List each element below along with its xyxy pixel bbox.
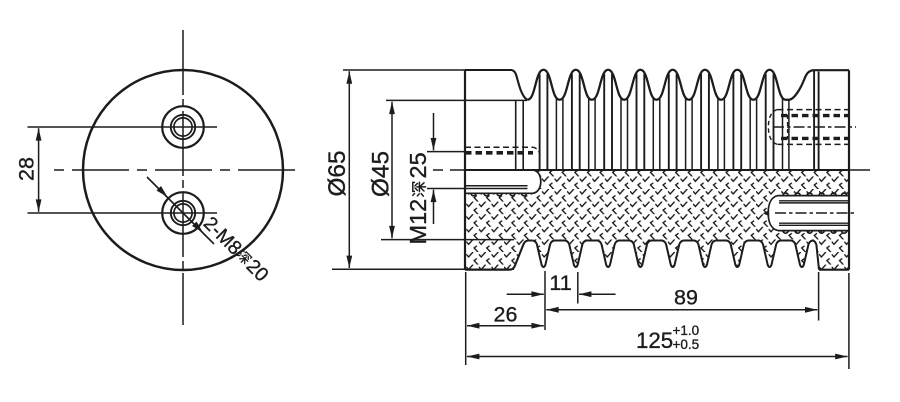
main axis centerline [433, 169, 876, 171]
svg-text:28: 28 [15, 157, 39, 181]
dim M12 extension top [427, 151, 466, 153]
dim 89 right extension [818, 272, 820, 321]
label 2-M8深20 [199, 212, 273, 286]
dim Ø45 extension top [386, 99, 527, 101]
dim Ø65 extension bottom [332, 268, 514, 270]
dim 26/11 shared extension [544, 271, 546, 330]
M12 hidden end arc [533, 147, 540, 156]
vertical centerline [182, 30, 184, 325]
M12 hidden thread (thick dashes) [465, 151, 533, 155]
svg-text:M12: M12 [405, 199, 431, 245]
hole M8 upper outer circle [162, 106, 204, 148]
svg-text:11: 11 [549, 271, 571, 295]
hole M8 lower centerline [28, 212, 218, 214]
M12 thread lines (section, below axis) [465, 186, 528, 189]
insert knurl bumps bottom [783, 231, 847, 234]
leader line 2-M8 [147, 177, 214, 244]
insert outer lines [778, 196, 849, 231]
M12 insert knurl bumps [471, 193, 527, 196]
hole M8 lower outer circle [162, 192, 204, 234]
dim 11 arrows outside [507, 293, 544, 295]
dim 89 line [546, 309, 817, 311]
drill bottom and cone [763, 210, 769, 216]
part outline top: left face [464, 70, 466, 270]
dim Ø65 extension top [343, 69, 466, 71]
dim M12 text [405, 152, 431, 244]
svg-text:89: 89 [674, 286, 698, 310]
hidden thread thick dashed lines [781, 116, 849, 139]
svg-text:Ø45: Ø45 [368, 151, 395, 197]
web to cap bottom slope [813, 241, 819, 270]
dim Ø65 line [348, 71, 350, 268]
section boundary line at axis [465, 169, 849, 171]
hidden insert end arc [768, 110, 777, 145]
dim Ø45 extension bottom [381, 239, 514, 241]
hidden insert outer dashed lines [778, 110, 850, 145]
end cap top edge [814, 69, 849, 71]
dimension 28 line [38, 128, 40, 212]
lower M8 centerline [775, 212, 856, 214]
svg-text:+1.0: +1.0 [673, 323, 700, 338]
shed flank vertical lines [540, 74, 774, 170]
horizontal centerline [54, 169, 298, 171]
dim Ø45 line [391, 102, 393, 239]
end cap left face [813, 70, 815, 170]
leader arrowheads [157, 186, 168, 197]
flange outline circle [83, 70, 283, 270]
svg-text:125: 125 [636, 328, 673, 353]
bellows profile curve [527, 70, 814, 100]
dim 26/125 left extension [465, 272, 467, 365]
valley silhouette lines [556, 99, 789, 170]
insert closed end arc [768, 196, 778, 231]
M12 insert outer line with knurl (section) [465, 192, 533, 194]
hatch section area [465, 170, 849, 270]
flange bottom edge and cone slope [465, 241, 528, 270]
hole M8 upper centerline [28, 126, 218, 128]
bottom teeth profile [533, 241, 813, 268]
first valley silhouette lines [516, 100, 524, 170]
upper M8 centerline [773, 126, 856, 128]
svg-text:25: 25 [405, 152, 431, 178]
insert knurl bumps top [783, 193, 847, 196]
dim 125 right extension [848, 273, 850, 369]
svg-text:26: 26 [494, 303, 518, 327]
hole M8 upper thread circles [171, 115, 195, 139]
hidden thread end vertical [787, 115, 789, 139]
dim M12 extension bottom [427, 188, 466, 190]
dim 125 line [467, 356, 848, 358]
flange top edge and cone slope [465, 70, 527, 100]
svg-text:+0.5: +0.5 [673, 337, 700, 352]
M12 hole section: top line and closed end arc [533, 170, 541, 193]
dim 26 line [467, 325, 544, 327]
end cap bottom edge [819, 269, 849, 271]
hole M8 lower thread circles [171, 201, 195, 225]
end cap face line [818, 72, 820, 171]
M8 thread lines [779, 201, 849, 226]
end cap right face [848, 70, 850, 270]
svg-text:Ø65: Ø65 [324, 151, 351, 197]
dim M12 arrows [433, 113, 435, 150]
M12 hidden insert outer (dashed, above axis) [465, 146, 533, 148]
web bottom edge left [527, 240, 533, 242]
dim 11 right extension [577, 272, 579, 304]
